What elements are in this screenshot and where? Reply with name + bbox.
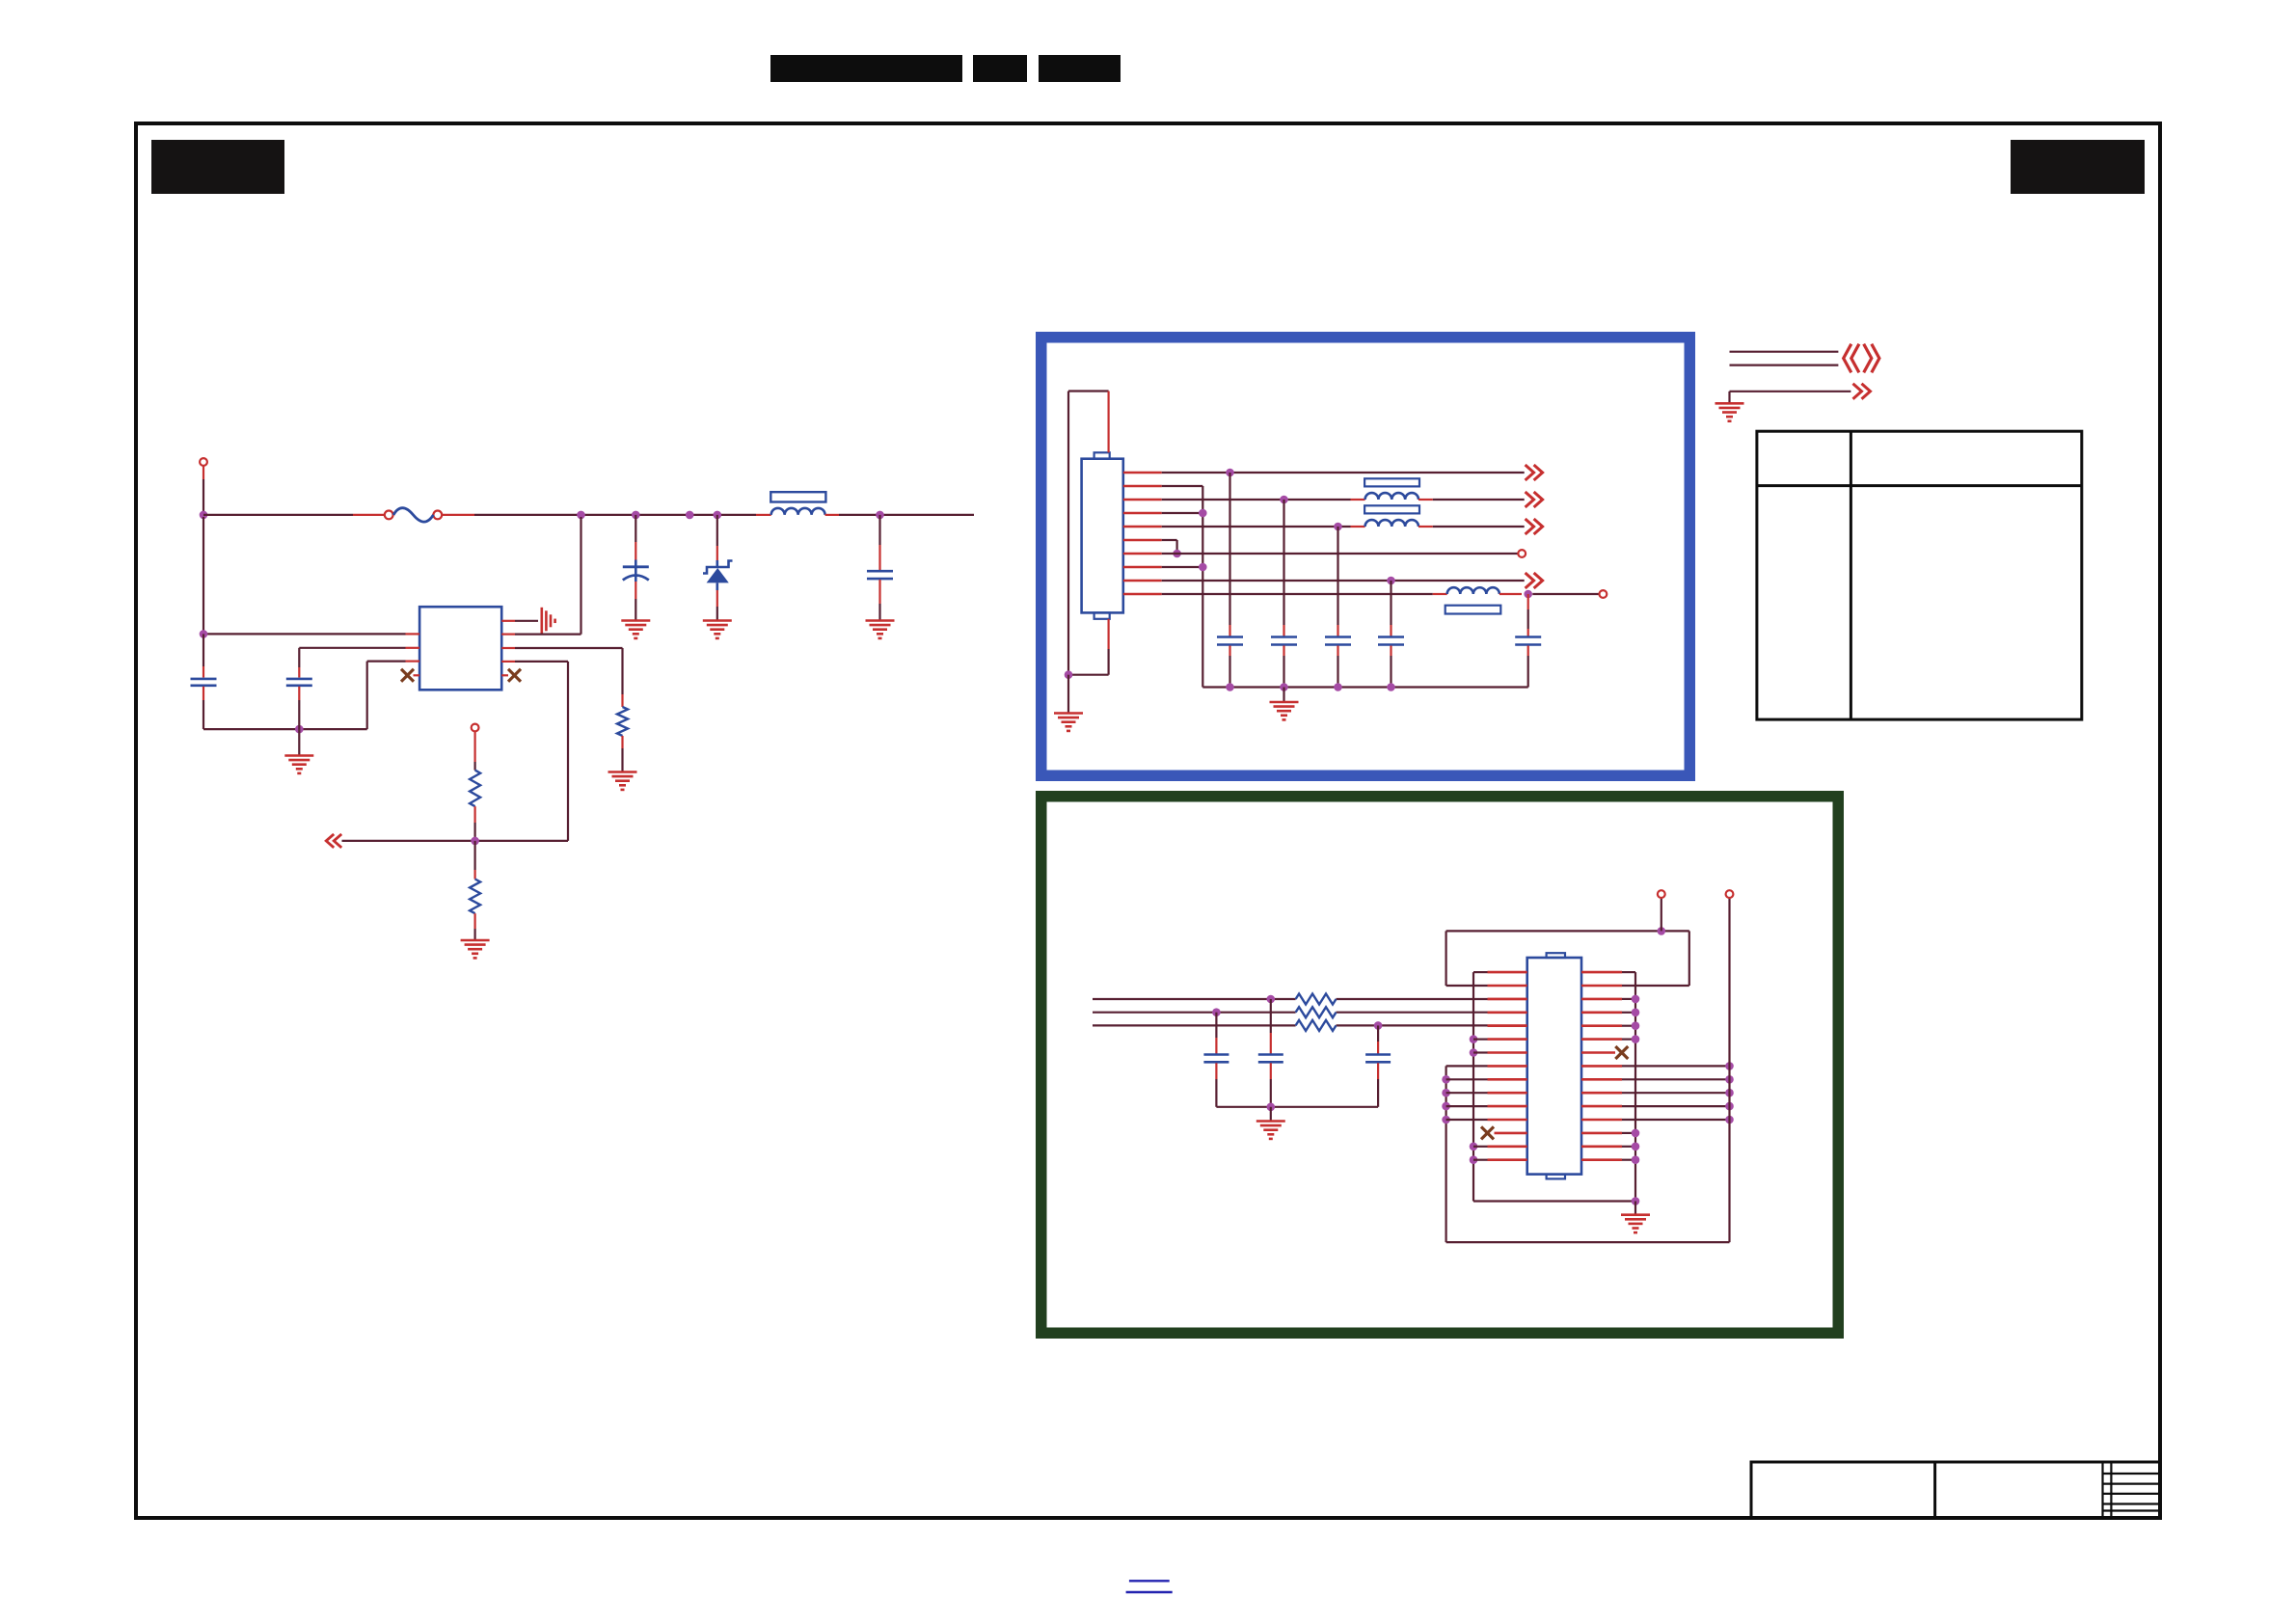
node rpin11 rail junction xyxy=(1725,1102,1734,1111)
node bus junction E (to C2) xyxy=(876,511,884,520)
title block frame xyxy=(1751,1462,2160,1518)
wire row9 (to arrow) xyxy=(1162,580,1525,582)
off-page arrow pair (left) xyxy=(1844,344,1859,373)
node line2 junction xyxy=(1212,1008,1221,1016)
wire row8 (to ground bus) xyxy=(1162,566,1203,568)
zener diode D1 xyxy=(703,515,733,621)
wire C9 to bus corner xyxy=(1527,646,1529,688)
wire signal line 3 xyxy=(1093,1024,1527,1026)
node rpin6 junction xyxy=(1632,1035,1640,1043)
resistor R2 xyxy=(470,771,480,807)
resistor R5 xyxy=(1296,1007,1337,1017)
wire bus ground stub xyxy=(1283,688,1284,703)
resistor R4 xyxy=(1296,994,1337,1005)
footer link underline 1 xyxy=(1129,1580,1170,1582)
wire U1 pin 3 loop xyxy=(367,662,419,730)
microcontroller IC U2 xyxy=(1527,953,1581,1178)
node bus-C8 junction xyxy=(1387,683,1395,691)
wires secondary loop to left pins xyxy=(1446,1079,1488,1120)
wire C8 to bus xyxy=(1390,646,1391,688)
node bus-C5 junction xyxy=(1226,683,1234,691)
resistor R3 xyxy=(470,841,480,913)
ground GND12 (U2) xyxy=(1621,1215,1650,1232)
wire bus output segment xyxy=(839,514,974,516)
fuse F1 xyxy=(385,508,442,522)
ground GND6 (R1) xyxy=(608,772,637,790)
node rpin12 rail junction xyxy=(1725,1116,1734,1124)
capacitor C5 xyxy=(1217,637,1243,645)
notes table frame xyxy=(1757,431,2082,719)
wire row3 to arrow xyxy=(1433,499,1525,501)
wire R3 to ground xyxy=(474,913,476,940)
node lpin11 junction xyxy=(1442,1102,1450,1111)
off-page arrow row5 xyxy=(1526,519,1543,534)
capacitor C9 xyxy=(1515,637,1541,645)
node rpin9 rail junction xyxy=(1725,1075,1734,1084)
node rpin3 junction xyxy=(1632,995,1640,1004)
wire row4 (to ground bus) xyxy=(1162,512,1203,514)
node rpin10 rail junction xyxy=(1725,1089,1734,1097)
node shield junction xyxy=(1065,670,1073,679)
capacitor C7 xyxy=(1325,637,1351,645)
wire P2 to R2 xyxy=(474,732,476,771)
wire secondary supply rail xyxy=(1446,898,1730,1242)
node supply loop junction xyxy=(1658,927,1666,935)
wire U2 right pin 7 stub xyxy=(1581,1051,1615,1054)
title block revision column 2 xyxy=(2110,1462,2112,1518)
node lpin6 junction xyxy=(1470,1035,1478,1043)
ground GND7 (R3) xyxy=(461,940,490,958)
node bus junction C xyxy=(686,511,694,520)
title block divider xyxy=(1933,1462,1936,1518)
capacitor C10 xyxy=(1203,1013,1229,1107)
wire row6 elbow xyxy=(1162,540,1177,554)
node bus junction B (to C1) xyxy=(632,511,640,520)
wire drop row9 to C8 xyxy=(1390,581,1391,636)
ground GND8 (shield) xyxy=(1054,714,1083,731)
capacitor C1 (polarized) xyxy=(623,515,649,621)
wire row10 to pin xyxy=(1532,593,1599,595)
wire return ground stub xyxy=(1270,1107,1272,1122)
connector pin P1 (input, open circle) xyxy=(200,458,207,466)
page border frame xyxy=(136,123,2160,1518)
notes table header line xyxy=(1757,484,2082,487)
wire C7 to bus xyxy=(1337,646,1338,688)
wire ground bus vertical xyxy=(1202,486,1203,688)
node lpin10 junction xyxy=(1442,1089,1450,1097)
node bottom return junction xyxy=(295,725,304,734)
node rail pin1 junction xyxy=(200,630,208,638)
wires right pins 8-12 to supply rail xyxy=(1622,1066,1730,1120)
connector pin P5 (supply, open circle) xyxy=(1658,890,1665,898)
connector pin P3 (row7 open circle) xyxy=(1518,550,1526,557)
wire off-page net 1 xyxy=(1730,351,1839,353)
connector pin P2 (open circle) xyxy=(472,724,479,732)
capacitor C6 xyxy=(1271,637,1297,645)
wire U2 left ground bus xyxy=(1473,972,1488,1201)
wire shield to ground xyxy=(1067,675,1069,714)
title bar redaction block 1 xyxy=(770,55,962,82)
wire C5 to bus xyxy=(1229,646,1230,688)
inductor L2 xyxy=(1351,478,1433,500)
footer link underline 2 xyxy=(1126,1591,1173,1593)
connector J1 body xyxy=(1082,452,1123,619)
wire drop row3 to C6 xyxy=(1283,500,1284,636)
off-page arrow pair (right) xyxy=(1864,344,1879,373)
IC U2 right pin stubs xyxy=(1581,972,1622,1160)
capacitor C11 xyxy=(1258,999,1283,1107)
title block revision rows xyxy=(2103,1474,2161,1511)
node row3 junction xyxy=(1280,496,1288,504)
wire U1 pin 8 to chassis ground xyxy=(501,620,538,622)
node bus junction A (to U1) xyxy=(577,511,585,520)
node lpin14 junction xyxy=(1470,1143,1478,1151)
wire signal line 1 xyxy=(1093,998,1527,1000)
wire filter ground bus xyxy=(1202,686,1527,688)
off-page arrow row1 xyxy=(1526,465,1543,480)
no-connect X on U2 left pin 13 xyxy=(1481,1126,1494,1139)
wire C6 to bus xyxy=(1283,646,1284,688)
node ground link junction xyxy=(1632,1197,1640,1205)
node lpin9 junction xyxy=(1442,1075,1450,1084)
IC U2 left pin stubs xyxy=(1488,972,1527,1160)
wire capacitor return xyxy=(1216,1106,1378,1108)
node lpin15 junction xyxy=(1470,1155,1478,1164)
node line3 junction xyxy=(1374,1021,1383,1030)
wires ground bus to left pins xyxy=(1473,1040,1488,1160)
node rpin4 junction xyxy=(1632,1009,1640,1017)
title bar redaction block 3 xyxy=(1039,55,1121,82)
connector pin P6 (supply 2, open circle) xyxy=(1726,890,1734,898)
node bus-C6 junction xyxy=(1280,683,1288,691)
wire signal line 2 xyxy=(1093,1012,1527,1014)
ground GND11 (cap return) xyxy=(1256,1122,1285,1139)
title bar redaction block 2 xyxy=(973,55,1027,82)
wire row7 (to pin) xyxy=(1162,553,1519,555)
capacitor C4 xyxy=(286,667,312,729)
connector J1 pin stubs xyxy=(1123,473,1162,594)
ground GND5 (chassis, rotated) xyxy=(542,608,555,635)
off-page arrow row3 xyxy=(1526,492,1543,507)
no-connect X on U1 right pin xyxy=(501,669,521,682)
node lpin7 junction xyxy=(1470,1048,1478,1057)
wire U1 pin 5 feedback xyxy=(342,662,569,841)
node row1 junction xyxy=(1226,469,1234,477)
node bus-C7 junction xyxy=(1334,683,1342,691)
off-page arrow row9 xyxy=(1526,573,1543,588)
node row5 junction xyxy=(1334,523,1342,531)
title block revision column 1 xyxy=(2101,1462,2103,1518)
wire U1 pin 7 to bus xyxy=(501,517,581,635)
ground GND3 (C2) xyxy=(866,621,895,638)
node row10 junction xyxy=(1524,590,1532,599)
wire bus after fuse xyxy=(442,514,756,516)
wire C3 to bottom rail xyxy=(203,687,204,729)
blue group frame xyxy=(1041,338,1690,776)
node bus junction D (to D1) xyxy=(714,511,722,520)
capacitor C3 (rail) xyxy=(191,679,217,686)
no-connect X on U1 pin 4 xyxy=(401,669,419,682)
inductor L3 xyxy=(1351,505,1433,527)
wire R2 to junction xyxy=(474,806,476,841)
wire J1 shield bottom loop xyxy=(1068,619,1109,675)
wire J1 shield top loop xyxy=(1068,392,1109,675)
wire supply pin riser xyxy=(1661,898,1662,931)
resistor R6 xyxy=(1296,1020,1337,1031)
node capacitor return junction xyxy=(1267,1103,1276,1112)
wire R1 to ground xyxy=(621,736,623,772)
node row4 ground junction xyxy=(1199,509,1207,518)
wire input rail xyxy=(203,466,204,515)
wires right pins to right ground bus xyxy=(1622,999,1635,1160)
connector pin P4 (row10 open circle) xyxy=(1600,590,1607,598)
node lpin12 junction xyxy=(1442,1116,1450,1124)
wire U1 pin 6 to R1 xyxy=(501,648,622,707)
wire off-page net 2 xyxy=(1730,365,1839,366)
top-right redaction box xyxy=(2011,140,2145,194)
regulator IC U1 xyxy=(419,607,501,690)
wire rail to U1 pin 1 xyxy=(203,517,419,634)
wire ground link stub xyxy=(1634,1202,1636,1215)
wire row3 segment xyxy=(1162,499,1351,501)
node row8 ground junction xyxy=(1199,563,1207,572)
wire drop row5 to C7 xyxy=(1337,527,1338,636)
node row6-row7 junction xyxy=(1173,550,1181,558)
node rpin5 junction xyxy=(1632,1021,1640,1030)
wire off-page net 3 xyxy=(1730,392,1851,402)
wire row5 to arrow xyxy=(1433,526,1525,528)
wire secondary loop left xyxy=(1446,1066,1488,1242)
ground GND2 (D1) xyxy=(703,621,732,638)
wire supply loop top xyxy=(1446,931,1689,986)
node rpin8 rail junction xyxy=(1725,1062,1734,1070)
wire row5 segment xyxy=(1162,526,1351,528)
node rpin14 junction xyxy=(1632,1143,1640,1151)
wire U2 ground link xyxy=(1473,1200,1635,1202)
wire drop row10 to C9 xyxy=(1527,594,1529,636)
off-page arrow net 3 xyxy=(1853,384,1871,399)
wire ground stub below return xyxy=(298,729,300,755)
wire bottom return xyxy=(203,728,367,730)
wire rail lower segment xyxy=(203,634,204,677)
wire U2 right ground bus xyxy=(1622,972,1635,1201)
off-page arrow (feedback, left) xyxy=(326,834,341,848)
capacitor C12 xyxy=(1365,1025,1391,1106)
ground GND10 (net 3) xyxy=(1715,403,1744,420)
ground GND9 (filter bus) xyxy=(1270,702,1299,719)
ground GND1 (C1) xyxy=(621,621,650,638)
top-left redaction box xyxy=(151,140,284,194)
wire drop row1 to C5 xyxy=(1229,473,1230,636)
node rpin15 junction xyxy=(1632,1155,1640,1164)
node rail-bus junction xyxy=(200,511,208,520)
no-connect X on U2 right pin 7 xyxy=(1615,1046,1628,1059)
inductor L1 xyxy=(756,492,839,515)
node row9 junction xyxy=(1387,577,1395,585)
wire main bus left segment xyxy=(203,514,385,516)
ground GND4 (return) xyxy=(284,756,313,773)
capacitor C2 xyxy=(867,515,893,621)
notes table column divider xyxy=(1850,431,1852,719)
wire C4 elbow to U1 pin 2 xyxy=(299,648,419,667)
node rpin13 junction xyxy=(1632,1129,1640,1138)
inductor L4 xyxy=(1433,587,1522,613)
wire U2 pin13 stub xyxy=(1495,1132,1527,1135)
node line1 junction xyxy=(1267,995,1276,1004)
wire row2 (ground elbow) xyxy=(1162,485,1203,487)
wire row10 segment xyxy=(1162,593,1433,595)
wire row1 (to arrow) xyxy=(1162,472,1525,474)
resistor R1 xyxy=(617,707,628,736)
green group frame xyxy=(1041,797,1839,1334)
capacitor C8 xyxy=(1378,637,1404,645)
node feedback junction xyxy=(471,837,479,846)
